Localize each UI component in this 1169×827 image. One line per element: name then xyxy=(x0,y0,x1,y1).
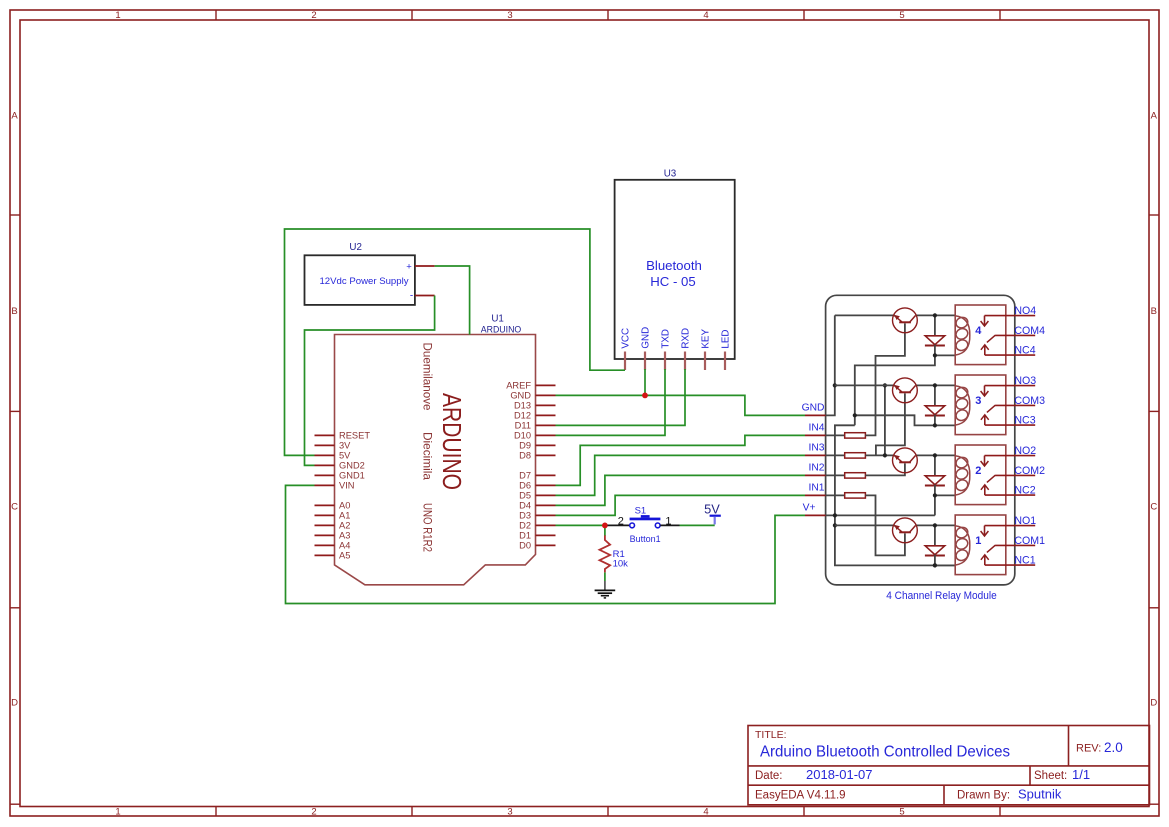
svg-text:COM2: COM2 xyxy=(1014,465,1045,477)
junction dot D2 net at button and R1 xyxy=(602,523,608,529)
Bluetooth U3 box xyxy=(615,180,735,359)
title block row divider lines xyxy=(748,726,1150,805)
svg-text:GND: GND xyxy=(510,391,531,401)
svg-text:2: 2 xyxy=(311,10,316,21)
svg-text:NC3: NC3 xyxy=(1014,415,1035,427)
svg-text:COM1: COM1 xyxy=(1014,535,1045,547)
wire relay internal lower left bus xyxy=(835,425,955,565)
wire relay internal GND branch right jog xyxy=(855,415,935,425)
diode D2 flyback (channel 2) xyxy=(925,476,945,486)
svg-text:RESET: RESET xyxy=(339,431,370,441)
wire diode rail top (channel 3) xyxy=(934,385,936,405)
wire relay internal ch4 coil return xyxy=(855,355,935,425)
resistor input IN2 xyxy=(826,473,866,478)
relay module input labels GND IN4 IN3 IN2 IN1 V+ xyxy=(802,403,825,514)
svg-text:Bluetooth: Bluetooth xyxy=(646,258,702,273)
svg-text:2: 2 xyxy=(618,516,624,528)
svg-text:2.0: 2.0 xyxy=(1104,740,1123,755)
relay K1 coil (channel 1) xyxy=(954,526,969,566)
junction dot diode top ch4 xyxy=(933,313,937,317)
svg-text:U3: U3 xyxy=(664,168,677,179)
svg-text:A5: A5 xyxy=(339,551,350,561)
svg-text:2: 2 xyxy=(975,465,981,477)
svg-text:NC2: NC2 xyxy=(1014,485,1035,497)
svg-text:Arduino Bluetooth Controlled D: Arduino Bluetooth Controlled Devices xyxy=(760,744,1010,761)
svg-text:Duemilanove: Duemilanove xyxy=(421,343,433,411)
svg-text:TXD: TXD xyxy=(660,329,671,349)
svg-text:2018-01-07: 2018-01-07 xyxy=(806,767,873,782)
wire Arduino D4 to relay IN2 xyxy=(556,475,806,505)
svg-text:UNO R1R2: UNO R1R2 xyxy=(421,503,435,552)
wire Arduino D3 to relay IN1 xyxy=(556,495,806,515)
svg-text:GND1: GND1 xyxy=(339,471,365,481)
svg-text:COM4: COM4 xyxy=(1014,325,1045,337)
svg-text:NO3: NO3 xyxy=(1014,375,1036,387)
transistor Q3 xyxy=(893,378,918,403)
frame column labels 1-5 xyxy=(115,10,904,817)
wire GND net Arduino GND to relay GND xyxy=(556,395,806,415)
relay module rounded outline xyxy=(826,295,1015,585)
button S1 actuator bump xyxy=(641,515,650,518)
relay contact NO2 pin with arrow (channel 2) xyxy=(981,456,1036,466)
U1 right pin stubs xyxy=(536,385,556,545)
wire 12V- U2 minus to Arduino GND2 xyxy=(305,296,435,466)
svg-text:AREF: AREF xyxy=(506,381,531,391)
svg-text:RXD: RXD xyxy=(680,328,691,349)
svg-text:1: 1 xyxy=(115,10,120,21)
svg-text:D: D xyxy=(11,698,18,709)
svg-text:A: A xyxy=(1151,111,1158,122)
svg-text:D5: D5 xyxy=(519,491,531,501)
svg-text:3V: 3V xyxy=(339,441,351,451)
svg-text:+: + xyxy=(406,261,412,272)
svg-text:U2: U2 xyxy=(349,242,362,253)
svg-text:C: C xyxy=(11,502,18,513)
wire relay internal emitter link ch3-ch2 xyxy=(884,385,886,455)
power supply U2 box xyxy=(305,255,415,305)
ground symbol stem xyxy=(604,581,606,590)
transistor Q1 xyxy=(893,518,918,543)
svg-text:A1: A1 xyxy=(339,511,350,521)
svg-text:D10: D10 xyxy=(514,431,531,441)
relay contact COM1 pin with arm (channel 1) xyxy=(987,545,1035,552)
wire button pin1 to 5V flag xyxy=(680,524,715,526)
svg-text:NO4: NO4 xyxy=(1014,305,1036,317)
svg-text:A: A xyxy=(11,111,18,122)
svg-text:D: D xyxy=(1150,698,1157,709)
svg-text:ARDUINO: ARDUINO xyxy=(481,324,522,335)
wire R1 bottom lead xyxy=(604,572,606,581)
wire coil bottom link (channel 1) xyxy=(935,564,955,566)
wire diode rail top (channel 1) xyxy=(934,525,936,545)
wire diode rail bottom (channel 3) xyxy=(934,415,936,426)
svg-text:Drawn By:: Drawn By: xyxy=(957,790,1010,802)
svg-text:5: 5 xyxy=(899,807,904,818)
svg-text:5V: 5V xyxy=(704,501,720,516)
U1 left pin labels xyxy=(339,431,370,561)
wire relay internal ch1 base path xyxy=(865,495,905,555)
wire relay internal ch4 base path xyxy=(865,323,905,435)
svg-text:D3: D3 xyxy=(519,511,531,521)
svg-text:Sheet:: Sheet: xyxy=(1034,770,1067,782)
wire 12V+ U2 plus to U1 top pin xyxy=(435,266,470,335)
svg-text:3: 3 xyxy=(507,10,512,21)
relay contact COM4 pin with arm (channel 4) xyxy=(987,335,1035,342)
svg-text:12Vdc Power Supply: 12Vdc Power Supply xyxy=(319,276,408,287)
relay K2 coil (channel 2) xyxy=(954,456,969,496)
U1 right pin labels xyxy=(506,381,531,551)
frame row labels A-D xyxy=(11,111,1157,709)
wire VIN net Arduino VIN to relay V+ xyxy=(286,485,806,603)
wire transistor emitter line (channel 4) xyxy=(835,314,895,316)
svg-text:D4: D4 xyxy=(519,501,531,511)
svg-text:5: 5 xyxy=(899,10,904,21)
wire relay internal V+ row xyxy=(826,514,935,516)
button S1 wire junction to pin2 xyxy=(608,524,630,526)
relay K4 coil (channel 4) xyxy=(954,316,969,356)
svg-text:1/1: 1/1 xyxy=(1072,767,1090,782)
svg-text:A3: A3 xyxy=(339,531,350,541)
wire relay internal ch3 emitter row xyxy=(865,454,894,456)
Arduino U1 body outline xyxy=(335,335,536,585)
svg-text:VIN: VIN xyxy=(339,481,355,491)
power flag 5V stem xyxy=(714,517,716,525)
svg-text:4: 4 xyxy=(975,325,982,337)
wire 5V net Arduino 5V to U3 VCC xyxy=(285,229,626,455)
diode D1 flyback (channel 1) xyxy=(925,546,945,556)
wire coil bottom link (channel 3) xyxy=(935,424,955,426)
junction dot diode bottom ch4 xyxy=(933,353,937,357)
junction dot diode top ch3 xyxy=(933,383,937,387)
U1 left pin stubs xyxy=(315,435,335,555)
resistor input IN1 xyxy=(826,493,866,498)
wire transistor collector line (channel 4) xyxy=(915,314,955,316)
svg-text:D13: D13 xyxy=(514,401,531,411)
relay contact NC3 pin with arrow (channel 3) xyxy=(981,415,1035,425)
transistor Q4 xyxy=(893,308,918,333)
resistor R1 zigzag xyxy=(600,535,611,572)
junction dot diode bottom ch2 xyxy=(933,493,937,497)
svg-text:D11: D11 xyxy=(515,421,531,431)
svg-text:3: 3 xyxy=(975,395,981,407)
svg-text:2: 2 xyxy=(311,807,316,818)
svg-text:GND: GND xyxy=(802,403,825,414)
wire diode rail bottom (channel 1) xyxy=(934,555,936,566)
wire diode rail bottom (channel 2) xyxy=(934,485,936,496)
frame row tick marks xyxy=(10,215,1159,804)
svg-text:1: 1 xyxy=(115,807,120,818)
svg-text:A4: A4 xyxy=(339,541,350,551)
svg-text:D6: D6 xyxy=(519,481,531,491)
svg-text:Diecimila: Diecimila xyxy=(421,432,435,480)
svg-text:C: C xyxy=(1150,502,1157,513)
relay contact NC4 pin with arrow (channel 4) xyxy=(981,345,1035,355)
wire diode rail top (channel 2) xyxy=(934,455,936,475)
svg-text:NO2: NO2 xyxy=(1014,445,1036,457)
wire coil bottom link (channel 4) xyxy=(935,354,955,356)
relay K2 body (channel 2) xyxy=(955,445,1006,505)
svg-text:NO1: NO1 xyxy=(1014,515,1036,527)
svg-text:D0: D0 xyxy=(519,541,531,551)
relay contact NC2 pin with arrow (channel 2) xyxy=(981,485,1035,495)
junction dot diode top ch2 xyxy=(933,453,937,457)
svg-text:B: B xyxy=(11,306,17,317)
resistor input IN3 xyxy=(826,453,866,458)
wire transistor emitter line (channel 3) xyxy=(835,384,895,386)
U3 bottom pin stubs xyxy=(625,352,725,371)
diode D3 flyback (channel 3) xyxy=(925,406,945,416)
svg-text:Button1: Button1 xyxy=(630,534,661,544)
wire Arduino D6 to relay IN4 xyxy=(556,435,806,485)
svg-text:4: 4 xyxy=(703,10,708,21)
wire relay internal ch3 base path xyxy=(876,393,905,455)
svg-text:NC4: NC4 xyxy=(1014,345,1035,357)
relay internal junction dots xyxy=(833,383,937,567)
relay K3 body (channel 3) xyxy=(955,375,1006,435)
U2 pin + stub xyxy=(415,265,435,267)
svg-text:A0: A0 xyxy=(339,501,350,511)
svg-text:LED: LED xyxy=(720,330,731,349)
wire transistor collector line (channel 1) xyxy=(915,524,955,526)
svg-text:IN1: IN1 xyxy=(808,483,824,494)
relay module input pin stubs xyxy=(805,415,826,515)
svg-text:IN2: IN2 xyxy=(808,463,824,474)
svg-text:S1: S1 xyxy=(635,506,647,517)
wire diode rail top (channel 4) xyxy=(934,315,936,335)
transistor Q2 xyxy=(893,448,918,473)
button S1 pin1 circle xyxy=(655,523,660,528)
svg-text:4: 4 xyxy=(703,807,708,818)
svg-text:5V: 5V xyxy=(339,451,351,461)
svg-text:D7: D7 xyxy=(519,471,531,481)
svg-text:GND: GND xyxy=(640,327,651,349)
svg-text:4 Channel Relay Module: 4 Channel Relay Module xyxy=(886,590,997,602)
svg-text:D8: D8 xyxy=(519,451,531,461)
svg-text:TITLE:: TITLE: xyxy=(755,729,787,741)
button S1 actuator bar xyxy=(630,518,661,521)
relay K1 body (channel 1) xyxy=(955,515,1006,575)
junction dot diode bottom ch1 xyxy=(933,563,937,567)
wire Arduino D2 to button junction xyxy=(556,524,605,526)
U3 pin labels VCC GND TXD RXD KEY LED xyxy=(620,327,731,349)
relay contact NO4 pin with arrow (channel 4) xyxy=(981,316,1036,326)
svg-text:KEY: KEY xyxy=(700,329,711,349)
wire Arduino D5 to relay IN3 xyxy=(556,455,806,495)
svg-text:-: - xyxy=(410,290,413,301)
frame column tick marks xyxy=(216,10,1000,816)
wire transistor collector line (channel 3) xyxy=(915,384,955,386)
svg-text:HC - 05: HC - 05 xyxy=(650,274,695,289)
wire relay internal ch2 coil return xyxy=(934,495,936,515)
svg-text:EasyEDA V4.11.9: EasyEDA V4.11.9 xyxy=(755,790,846,802)
svg-text:D12: D12 xyxy=(514,411,531,421)
svg-text:Sputnik: Sputnik xyxy=(1018,787,1062,802)
relay contact NO1 pin with arrow (channel 1) xyxy=(981,526,1036,536)
relay K4 body (channel 4) xyxy=(955,305,1006,365)
diode D4 flyback (channel 4) xyxy=(925,336,945,346)
svg-text:V+: V+ xyxy=(803,503,816,514)
wire U3 GND pin drop to GND net xyxy=(644,369,646,395)
wire transistor emitter line (channel 1) xyxy=(835,524,895,526)
svg-text:D2: D2 xyxy=(519,521,531,531)
svg-text:1: 1 xyxy=(665,516,671,528)
svg-text:1: 1 xyxy=(975,535,981,547)
wire D2 junction down to R1 xyxy=(604,525,606,536)
junction dot diode bottom ch3 xyxy=(933,423,937,427)
svg-text:B: B xyxy=(1151,306,1157,317)
relay contact COM3 pin with arm (channel 3) xyxy=(987,405,1035,412)
relay contact COM2 pin with arm (channel 2) xyxy=(987,475,1035,482)
junction dot GND net at U3 GND xyxy=(642,393,648,399)
svg-text:3: 3 xyxy=(507,807,512,818)
svg-text:IN3: IN3 xyxy=(808,443,824,454)
wire relay internal ch2 base path xyxy=(865,463,905,475)
svg-text:REV:: REV: xyxy=(1076,743,1101,755)
button S1 wire pin1 out xyxy=(660,524,679,526)
U2 pin - stub xyxy=(415,295,435,297)
button S1 pin2 circle xyxy=(630,523,635,528)
wire U3 RXD to Arduino D11 xyxy=(556,369,686,425)
junction dot diode top ch1 xyxy=(933,523,937,527)
relay contact NO3 pin with arrow (channel 3) xyxy=(981,386,1036,396)
svg-text:IN4: IN4 xyxy=(808,423,824,434)
svg-text:NC1: NC1 xyxy=(1014,555,1035,567)
ground symbol bars xyxy=(595,590,616,598)
wire coil bottom link (channel 2) xyxy=(935,494,955,496)
resistor input IN4 xyxy=(826,433,866,438)
relay K3 coil (channel 3) xyxy=(954,386,969,426)
svg-text:D9: D9 xyxy=(519,441,531,451)
wire U3 TXD to Arduino D10 xyxy=(556,369,666,435)
svg-text:D1: D1 xyxy=(519,531,531,541)
svg-text:Date:: Date: xyxy=(755,770,783,782)
title block outline xyxy=(748,726,1150,805)
svg-text:U1: U1 xyxy=(491,314,504,325)
svg-text:10k: 10k xyxy=(613,559,629,570)
svg-text:ARDUINO: ARDUINO xyxy=(437,393,465,490)
power flag 5V bar xyxy=(710,515,721,517)
wire relay internal GND pin riser xyxy=(826,315,835,415)
svg-text:A2: A2 xyxy=(339,521,350,531)
wire transistor collector line (channel 2) xyxy=(915,454,955,456)
relay contact NC1 pin with arrow (channel 1) xyxy=(981,555,1035,565)
svg-text:VCC: VCC xyxy=(620,328,631,349)
svg-text:GND2: GND2 xyxy=(339,461,365,471)
wire diode rail bottom (channel 4) xyxy=(934,345,936,356)
svg-text:COM3: COM3 xyxy=(1014,395,1045,407)
